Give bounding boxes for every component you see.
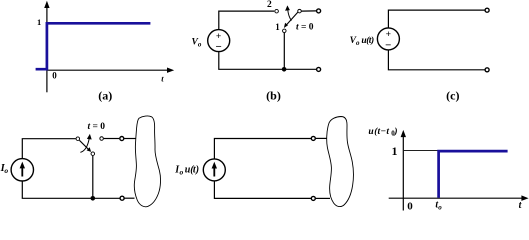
voltage source V0u(t) (c) xyxy=(377,28,399,52)
wire: bottom terminal to network blob (d) xyxy=(125,197,135,199)
svg-text:0: 0 xyxy=(407,201,413,212)
terminal (e) bottom xyxy=(311,196,315,200)
wire: switch common to top terminal (b) xyxy=(302,10,317,12)
svg-text:−: − xyxy=(385,39,391,51)
switch motion arrow (d) xyxy=(80,134,91,153)
switch contact 1 (b) xyxy=(283,29,287,33)
junction dot (b) xyxy=(282,67,287,72)
svg-text:−: − xyxy=(215,41,221,53)
voltage source V0 (b) xyxy=(208,30,230,54)
wire: bottom terminal to network blob (e) xyxy=(316,197,330,199)
terminal (e) top xyxy=(311,136,315,140)
switch blade (d) xyxy=(79,140,91,152)
svg-text:1: 1 xyxy=(37,17,41,27)
terminal (d) top xyxy=(120,137,124,141)
graph (a) vertical axis xyxy=(44,1,49,93)
terminal (b) bottom xyxy=(317,67,321,71)
svg-text:Io: Io xyxy=(0,163,8,175)
current source I0u(t) (e) xyxy=(203,159,225,181)
wire: shorting branch down (d) xyxy=(92,156,94,199)
graph (f) blue step trace u(t-t0) xyxy=(439,151,508,198)
graph (f) horizontal axis xyxy=(389,195,529,201)
circuit (e) wire: source top rail xyxy=(214,139,311,160)
wire: open contact to top terminal (d) xyxy=(104,138,120,140)
svg-text:2: 2 xyxy=(267,0,272,10)
svg-text:u(t−t0): u(t−t0) xyxy=(368,126,397,138)
svg-text:(a): (a) xyxy=(98,89,112,103)
svg-text:Vo: Vo xyxy=(192,37,202,48)
graph (f) vertical axis xyxy=(401,130,406,211)
network blob (e) xyxy=(327,117,354,207)
graph (f) reference line at level 1 xyxy=(404,150,438,152)
circuit (e) wire: source bottom rail xyxy=(214,181,311,199)
terminal (b) top xyxy=(317,9,321,13)
graph (a) blue step trace u(t) xyxy=(36,23,151,69)
circuit (d) wire: source top rail to switch xyxy=(22,139,76,159)
svg-text:Vou(t): Vou(t) xyxy=(350,35,375,47)
terminal (c) bottom xyxy=(485,68,489,72)
circuit (b) wire: source top to contact 2 xyxy=(219,11,274,30)
graph (a) horizontal axis xyxy=(47,68,175,73)
terminal (d) bottom xyxy=(120,196,124,200)
network blob (d) xyxy=(134,116,160,207)
svg-text:(c): (c) xyxy=(446,89,459,103)
svg-text:t: t xyxy=(161,73,164,83)
svg-text:t: t xyxy=(519,200,523,211)
circuit (b) wire: source bottom rail xyxy=(219,51,316,69)
circuit (c) wire: top rail xyxy=(388,10,484,28)
svg-text:t = 0: t = 0 xyxy=(296,23,314,33)
switch pivot contact (d) xyxy=(76,137,80,141)
wire: contact 1 down to bottom rail (b) xyxy=(283,33,285,70)
junction dot (d) xyxy=(91,196,96,201)
switch contact to shorting branch (d) xyxy=(91,152,95,156)
svg-text:0: 0 xyxy=(52,71,57,81)
svg-text:(b): (b) xyxy=(266,89,281,103)
current source I0 (d) xyxy=(11,159,33,181)
svg-text:t = 0: t = 0 xyxy=(88,122,106,132)
svg-text:Iou(t): Iou(t) xyxy=(174,165,199,177)
wire: top terminal to network blob (e) xyxy=(316,137,327,139)
switch common contact (b) xyxy=(298,9,302,13)
switch motion arrow (b) xyxy=(285,5,291,20)
circuit (c) wire: bottom rail xyxy=(388,50,484,70)
switch blade (b) xyxy=(284,12,298,28)
svg-text:to: to xyxy=(435,200,442,212)
terminal (c) top xyxy=(485,8,489,12)
wire: top terminal to network blob (d) xyxy=(124,138,136,140)
circuit (d) wire: source bottom rail xyxy=(22,181,119,198)
switch contact 2 (b) xyxy=(275,9,279,13)
svg-text:1: 1 xyxy=(392,144,398,158)
switch open contact (d) xyxy=(100,137,104,141)
svg-text:1: 1 xyxy=(275,22,280,32)
